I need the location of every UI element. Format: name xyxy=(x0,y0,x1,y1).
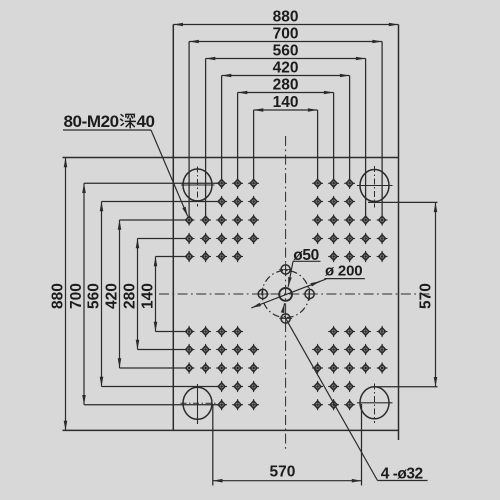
svg-text:140: 140 xyxy=(273,94,299,111)
svg-text:560: 560 xyxy=(86,283,103,309)
svg-text:570: 570 xyxy=(418,283,435,309)
svg-text:700: 700 xyxy=(273,25,299,42)
svg-text:560: 560 xyxy=(273,42,299,59)
svg-text:700: 700 xyxy=(68,283,85,309)
svg-text:140: 140 xyxy=(140,283,157,309)
svg-text:280: 280 xyxy=(273,76,299,93)
svg-text:570: 570 xyxy=(269,464,295,481)
svg-text:420: 420 xyxy=(273,59,299,76)
svg-text:420: 420 xyxy=(104,283,121,309)
svg-text:40: 40 xyxy=(137,112,155,131)
svg-text:280: 280 xyxy=(122,283,139,309)
svg-text:ø 200: ø 200 xyxy=(325,263,362,280)
svg-text:880: 880 xyxy=(50,283,67,309)
svg-text:80-M20: 80-M20 xyxy=(64,112,119,131)
svg-text:880: 880 xyxy=(273,8,299,25)
